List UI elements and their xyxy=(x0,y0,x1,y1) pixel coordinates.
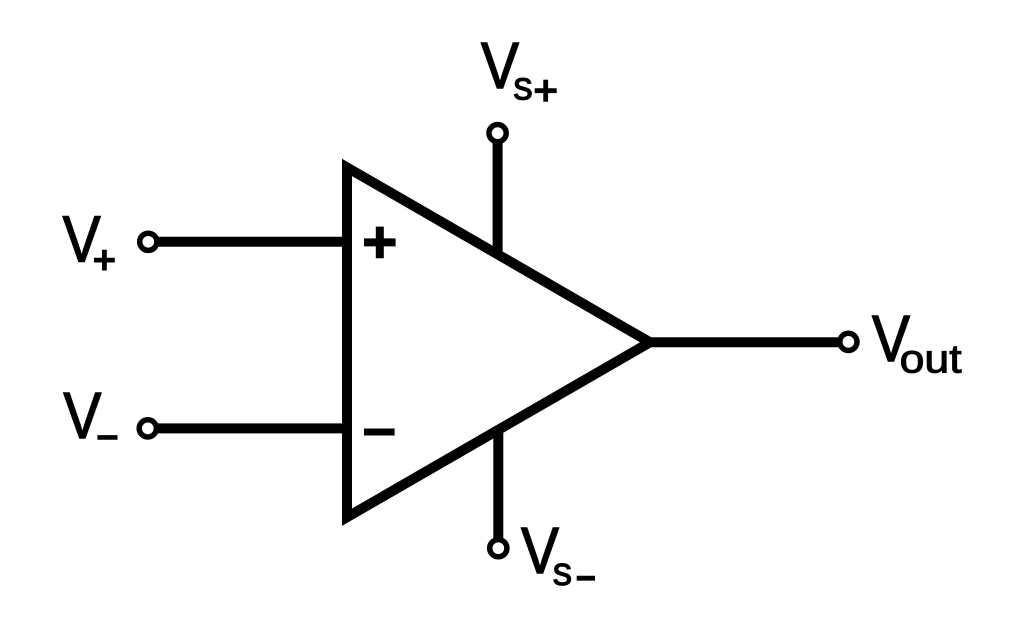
op-amp inverting input marker - xyxy=(364,429,395,436)
label Vs+ (positive supply) xyxy=(481,29,557,109)
svg-text:V: V xyxy=(63,203,101,276)
op-amp U1 triangle body xyxy=(347,167,650,517)
wire: negative supply Vs- xyxy=(493,429,503,548)
label Vout (output) xyxy=(872,302,962,382)
terminal node Vs- xyxy=(490,540,507,557)
wire: positive supply Vs+ xyxy=(493,133,503,255)
terminal node Vout xyxy=(840,333,857,350)
wire: noninverting input V+ to op-amp xyxy=(148,237,352,247)
op-amp noninverting input marker + xyxy=(364,227,396,259)
wire: output to Vout terminal xyxy=(646,337,848,347)
label Vs- (negative supply) xyxy=(521,514,595,594)
terminal node V+ xyxy=(140,233,157,250)
svg-text:V: V xyxy=(63,379,101,452)
svg-text:out: out xyxy=(900,338,962,382)
terminal node V- xyxy=(139,420,156,437)
svg-text:s: s xyxy=(513,65,533,109)
label V- (inverting input) xyxy=(63,379,117,452)
terminal node Vs+ xyxy=(489,125,506,142)
wire: inverting input V- to op-amp xyxy=(148,423,352,433)
label V+ (noninverting input) xyxy=(63,203,115,276)
svg-text:s: s xyxy=(553,550,573,594)
